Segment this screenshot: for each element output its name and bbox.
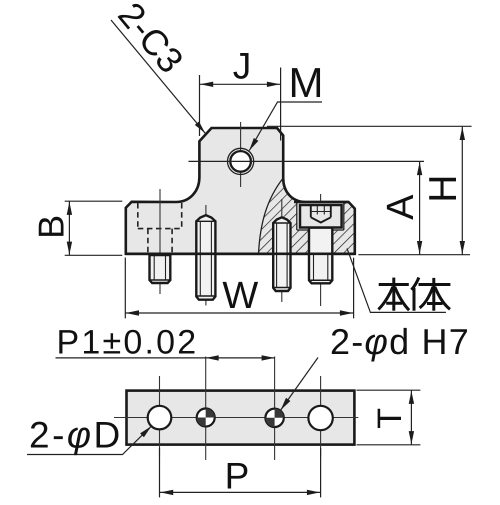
threaded hole M: [228, 148, 254, 174]
svg-text:W: W: [222, 275, 258, 317]
dim P: [160, 448, 321, 497]
dim T: [357, 390, 421, 445]
dim A: [189, 161, 425, 254]
dowel pin 3 (in section): [273, 217, 290, 291]
counterbore pocket: [297, 203, 344, 230]
svg-text:A: A: [380, 194, 422, 220]
socket screw shank: [309, 228, 332, 284]
svg-text:B: B: [31, 215, 72, 239]
label 2-φd H7 + leader: [281, 358, 318, 411]
plate body: [127, 391, 355, 445]
svg-text:P1±0.02: P1±0.02: [57, 323, 199, 361]
socket screw head: [300, 205, 342, 228]
svg-text:2-φD: 2-φD: [29, 415, 123, 456]
svg-text:H: H: [422, 175, 465, 203]
section break line: [259, 178, 284, 254]
svg-text:J: J: [233, 46, 252, 87]
dim B: [65, 201, 123, 255]
dim P1±0.02: [56, 357, 275, 359]
dowel hole d left (quadrant dot): [197, 409, 215, 427]
plate horizontal centerline: [114, 417, 358, 419]
svg-text:M: M: [289, 59, 324, 106]
dim J: [200, 68, 281, 141]
hole D left: [148, 406, 172, 430]
hole D right: [308, 406, 332, 430]
label 2-φD + leader: [27, 426, 151, 454]
dowel pin 2: [196, 215, 215, 300]
hidden counterbore hole (left, dashed): [138, 203, 182, 253]
label 本体 + leader: [347, 248, 446, 312]
label 2-C3 + leader: [111, 20, 205, 133]
hole vertical centerlines: [160, 357, 321, 461]
screw stud (left, below body): [150, 255, 171, 283]
dowel hole d right (quadrant dot): [265, 409, 283, 427]
svg-text:T: T: [371, 408, 409, 429]
svg-text:P: P: [225, 456, 250, 497]
main body outline: [126, 128, 355, 254]
centerlines upper view: [160, 122, 321, 306]
wing top edge over pocket: [294, 201, 349, 204]
body bottom edge: [126, 253, 355, 256]
dim W: [125, 258, 353, 319]
svg-text:2-φd H7: 2-φd H7: [330, 321, 470, 362]
dim H: [267, 126, 472, 254]
